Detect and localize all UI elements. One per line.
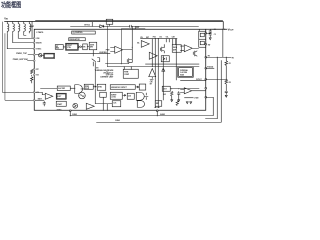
svg-text:SW: SW xyxy=(208,44,211,46)
svg-text:SOFT: SOFT xyxy=(57,96,61,98)
svg-text:VIN: VIN xyxy=(140,37,142,39)
svg-text:PWM: PWM xyxy=(124,72,129,74)
svg-text:PWM1_TOP: PWM1_TOP xyxy=(16,53,27,55)
svg-text:SYNC: SYNC xyxy=(36,48,42,50)
svg-text:VREF: VREF xyxy=(150,80,154,82)
svg-text:C1: C1 xyxy=(214,29,216,31)
svg-text:CTRL: CTRL xyxy=(67,47,71,49)
svg-text:OVL: OVL xyxy=(159,37,162,39)
svg-text:0.8V: 0.8V xyxy=(163,94,166,96)
svg-text:CURRENT LIMIT: CURRENT LIMIT xyxy=(100,77,114,79)
svg-text:BST: BST xyxy=(146,37,149,39)
svg-text:LINE REG: LINE REG xyxy=(99,52,107,54)
svg-text:OUT: OUT xyxy=(163,89,166,91)
svg-text:BST: BST xyxy=(136,27,139,29)
svg-text:PGD: PGD xyxy=(153,37,156,39)
svg-text:VOUT: VOUT xyxy=(228,27,235,31)
svg-text:R1: R1 xyxy=(229,63,231,65)
svg-text:EN/UV: EN/UV xyxy=(36,42,42,44)
svg-text:DRV: DRV xyxy=(90,47,93,49)
svg-text:SGND: SGND xyxy=(115,120,120,122)
svg-text:INTVCC: INTVCC xyxy=(84,25,91,27)
svg-text:LT8676: LT8676 xyxy=(37,32,45,34)
svg-text:R2: R2 xyxy=(229,82,231,84)
svg-text:EN: EN xyxy=(96,67,98,69)
svg-text:IQ CONTROL: IQ CONTROL xyxy=(73,32,83,34)
svg-text:VIN: VIN xyxy=(4,16,8,20)
svg-text:R1: R1 xyxy=(232,57,234,59)
svg-text:PGOOD: PGOOD xyxy=(207,66,214,68)
svg-text:UVL: UVL xyxy=(166,37,169,39)
svg-text:PWM1_BOTTOM: PWM1_BOTTOM xyxy=(13,59,28,61)
svg-text:0.8V: 0.8V xyxy=(150,82,153,84)
svg-text:C2: C2 xyxy=(214,34,216,36)
svg-text:MODE/SYNC DETECT: MODE/SYNC DETECT xyxy=(111,87,127,89)
svg-text:INT: INT xyxy=(150,84,152,86)
svg-text:IMON: IMON xyxy=(173,47,177,49)
svg-text:INT: INT xyxy=(56,46,59,48)
svg-text:BURST: BURST xyxy=(111,94,116,96)
